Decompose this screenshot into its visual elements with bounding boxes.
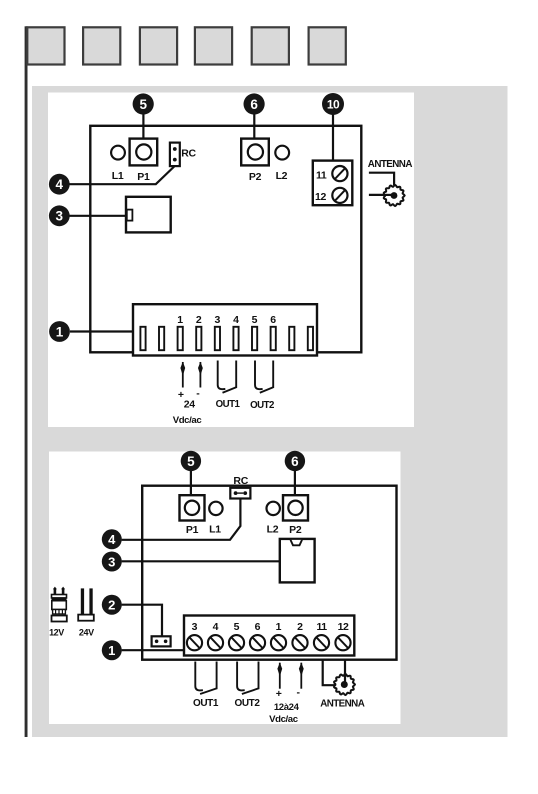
12V jumper icon	[52, 587, 67, 622]
label +24- Vdc/ac (fig.1)	[173, 388, 203, 427]
terminal strip (fig.1)	[133, 304, 317, 355]
wire badge6 to P2 (fig.2)	[294, 469, 296, 496]
24V jumper icon	[78, 588, 94, 620]
svg-text:-: -	[196, 388, 200, 400]
power arrow - (fig.2)	[299, 663, 304, 689]
svg-text:OUT2: OUT2	[250, 400, 274, 411]
label + - 12a24 Vdc/ac (fig.2)	[269, 687, 300, 726]
label L2 (fig.2)	[267, 524, 279, 536]
callout badge 6 (fig.2)	[285, 451, 305, 471]
label L1 (fig.2)	[209, 524, 221, 536]
svg-text:12V: 12V	[49, 628, 64, 638]
callout badge 10 (fig.1)	[322, 93, 344, 115]
wire badge3 to module (fig.1)	[70, 215, 129, 217]
callout badge 5 (fig.2)	[181, 451, 201, 471]
svg-text:5: 5	[187, 454, 195, 469]
relay contact OUT2 (fig.2)	[237, 662, 258, 695]
label RC (fig.1)	[181, 148, 196, 160]
svg-text:24: 24	[184, 399, 196, 411]
svg-text:2: 2	[196, 314, 202, 326]
svg-text:Vdc/ac: Vdc/ac	[173, 415, 203, 426]
wire badge6 to P2 (fig.1)	[253, 112, 255, 139]
svg-text:6: 6	[291, 454, 299, 469]
terminal numbers (fig.2)	[192, 621, 349, 633]
button P2 (fig.1)	[241, 139, 269, 166]
antenna connector (fig.1)	[383, 185, 405, 206]
svg-text:RC: RC	[181, 148, 196, 160]
svg-text:6: 6	[270, 314, 276, 326]
terminal slots (fig.1)	[140, 327, 313, 350]
wire badge4 to RC jumper (fig.2)	[122, 499, 241, 540]
svg-text:L1: L1	[112, 170, 124, 182]
svg-text:3: 3	[192, 621, 198, 633]
relay contact OUT2 (fig.1)	[255, 361, 273, 393]
svg-text:3: 3	[214, 314, 220, 326]
header square 3	[140, 27, 177, 64]
svg-text:12: 12	[338, 621, 349, 633]
svg-text:1: 1	[177, 314, 183, 326]
svg-text:5: 5	[139, 97, 147, 112]
PCB board outline (fig.2)	[142, 486, 396, 660]
label L1 (fig.1)	[112, 170, 124, 182]
jumper RC (fig.1)	[170, 143, 180, 167]
callout badge 6 (fig.1)	[244, 93, 265, 114]
svg-text:3: 3	[108, 554, 115, 569]
voltage selection jumper (fig.2)	[152, 636, 171, 646]
LED L2 (fig.2)	[267, 502, 280, 515]
callout badge 3 (fig.2)	[102, 552, 122, 572]
svg-text:RC: RC	[233, 475, 248, 487]
antenna connector (fig.2)	[334, 673, 355, 695]
svg-text:1: 1	[276, 621, 282, 633]
label 12V	[49, 628, 64, 638]
antenna terminal block 11/12 (fig.1)	[313, 161, 353, 206]
wire badge1 to terminal strip (fig.2)	[122, 649, 185, 651]
svg-text:4: 4	[108, 532, 116, 547]
header square 1	[27, 27, 64, 64]
callout badge 4 (fig.2)	[102, 529, 122, 549]
grey backdrop panel	[32, 86, 508, 737]
svg-text:+: +	[276, 688, 282, 700]
relay contact OUT1 (fig.2)	[195, 662, 216, 695]
svg-text:2: 2	[297, 621, 303, 633]
svg-text:10: 10	[327, 97, 340, 111]
svg-text:5: 5	[234, 621, 240, 633]
terminal numbers 1-6 (fig.1)	[177, 314, 276, 326]
callout badge 1 (fig.1)	[49, 321, 70, 342]
svg-text:6: 6	[250, 97, 258, 112]
wire antenna label to connector (fig.1)	[369, 173, 394, 185]
svg-text:ANTENNA: ANTENNA	[368, 159, 413, 170]
wire badge3 to receiver module (fig.2)	[122, 560, 281, 562]
svg-text:4: 4	[213, 621, 219, 633]
label 24V	[79, 628, 94, 638]
label ANTENNA (fig.1)	[368, 159, 413, 170]
PCB board outline (fig.1)	[90, 126, 361, 352]
header square 4	[195, 27, 232, 64]
callout badge 3 (fig.1)	[49, 205, 70, 226]
radio module (fig.1)	[126, 197, 171, 233]
label P1 (fig.1)	[137, 171, 150, 183]
power arrow - (fig.1)	[198, 362, 203, 388]
label OUT2 (fig.1)	[250, 400, 274, 411]
wire screw11 to antenna connector (fig.2)	[323, 660, 335, 685]
wire badge5 to P1 (fig.1)	[142, 112, 144, 139]
label RC (fig.2)	[233, 475, 248, 487]
label OUT1 (fig.2)	[193, 698, 219, 709]
callout badge 4 (fig.1)	[49, 174, 70, 195]
wire badge1 to terminal strip (fig.1)	[70, 330, 134, 332]
svg-text:L1: L1	[209, 524, 221, 536]
svg-text:P1: P1	[186, 524, 199, 536]
svg-text:1: 1	[56, 324, 64, 339]
wire antenna feed (fig.1)	[369, 194, 393, 196]
label OUT1 (fig.1)	[216, 399, 241, 410]
svg-text:P1: P1	[137, 171, 150, 183]
svg-text:12: 12	[315, 191, 326, 203]
wire badge2 to voltage jumper (fig.2)	[122, 605, 162, 637]
terminal screws (fig.2)	[187, 635, 351, 650]
svg-text:1: 1	[108, 643, 115, 658]
svg-text:OUT1: OUT1	[216, 399, 241, 410]
power arrow + (fig.1)	[180, 362, 185, 388]
button P1 (fig.1)	[130, 139, 158, 166]
button P2 (fig.2)	[283, 495, 308, 520]
callout badge 1 (fig.2)	[102, 640, 122, 660]
wire badge10 to terminal block (fig.1)	[332, 112, 334, 162]
label OUT2 (fig.2)	[234, 698, 260, 709]
terminal strip (fig.2)	[184, 616, 354, 656]
header square 2	[83, 27, 120, 64]
LED L2 (fig.1)	[275, 146, 289, 160]
relay contact OUT1 (fig.1)	[218, 361, 237, 393]
label P2 (fig.1)	[249, 171, 262, 183]
svg-text:4: 4	[233, 314, 239, 326]
power arrow + (fig.2)	[277, 663, 282, 689]
svg-text:ANTENNA: ANTENNA	[320, 698, 365, 709]
svg-text:11: 11	[316, 170, 327, 182]
svg-text:L2: L2	[276, 170, 288, 182]
wire badge4 to RC jumper (fig.1)	[70, 167, 175, 185]
svg-text:Vdc/ac: Vdc/ac	[269, 714, 299, 725]
header square 6	[309, 27, 346, 64]
left margin vertical rule	[25, 26, 28, 737]
svg-text:OUT1: OUT1	[193, 698, 219, 709]
svg-text:4: 4	[56, 177, 64, 192]
figure 2 white area	[49, 452, 401, 725]
label P1 (fig.2)	[186, 524, 199, 536]
LED L1 (fig.2)	[209, 502, 222, 515]
svg-text:P2: P2	[249, 171, 262, 183]
wire screw12 to antenna core (fig.2)	[344, 660, 346, 684]
jumper RC (fig.2)	[230, 488, 250, 499]
callout badge 2 (fig.2)	[102, 595, 122, 615]
svg-text:L2: L2	[267, 524, 279, 536]
svg-text:6: 6	[255, 621, 261, 633]
wire badge5 to P1 (fig.2)	[190, 469, 192, 496]
button P1 (fig.2)	[180, 495, 205, 520]
receiver module (fig.2)	[280, 539, 315, 583]
label ANTENNA (fig.2)	[320, 698, 365, 709]
svg-text:5: 5	[252, 314, 258, 326]
svg-text:OUT2: OUT2	[234, 698, 260, 709]
svg-text:11: 11	[316, 621, 327, 633]
figure 1 white area	[48, 93, 414, 428]
svg-text:P2: P2	[289, 524, 302, 536]
svg-text:24V: 24V	[79, 628, 94, 638]
svg-text:3: 3	[56, 209, 64, 224]
label L2 (fig.1)	[276, 170, 288, 182]
svg-text:12à24: 12à24	[274, 702, 300, 713]
header square 5	[252, 27, 289, 64]
callout badge 5 (fig.1)	[133, 93, 154, 114]
label P2 (fig.2)	[289, 524, 302, 536]
LED L1 (fig.1)	[111, 146, 125, 160]
svg-text:2: 2	[108, 598, 115, 613]
svg-text:-: -	[297, 687, 301, 699]
